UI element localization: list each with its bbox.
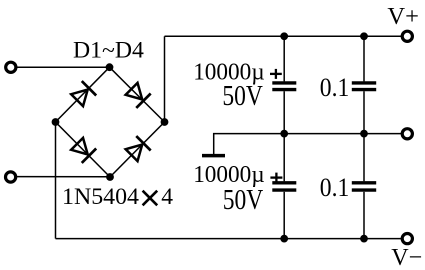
diode D (bottom-right arm) [124, 136, 150, 162]
capacitor C1 10000u 50V plates [272, 81, 296, 84]
diode D (bottom-left arm) [70, 137, 96, 163]
node right junction [161, 118, 169, 126]
svg-text:0.1: 0.1 [320, 72, 350, 102]
wire left node down to bottom rail [55, 122, 57, 239]
terminal V- [402, 234, 412, 244]
node left junction [52, 118, 60, 126]
capacitor C3 10000u 50V plates [272, 181, 296, 184]
wire upper 0.1 branch top [363, 36, 365, 81]
wire lower 0.1 branch bottom [363, 192, 365, 239]
label C1 polarity plus [270, 69, 282, 79]
capacitor C4 0.1 plates [352, 181, 376, 184]
wire upper electrolytic branch top [283, 36, 285, 81]
wire bridge arm top-right [110, 67, 165, 122]
svg-text:10000µ: 10000µ [193, 162, 265, 188]
ground [202, 154, 225, 158]
wire upper electrolytic branch bottom [283, 91, 285, 133]
diode D (top-right arm) [124, 82, 150, 108]
wire bottom rail to V- [56, 238, 403, 240]
wire bridge arm left-bottom [56, 122, 111, 177]
diode D (top-left arm) [70, 81, 96, 107]
wire lower electrolytic branch bottom [283, 192, 285, 239]
terminal V+ [402, 31, 412, 41]
wire AC1 to top node [16, 66, 109, 68]
svg-text:50V: 50V [223, 185, 264, 216]
node bottom rail C3 [280, 235, 288, 243]
svg-text:50V: 50V [222, 81, 263, 112]
node bottom junction [106, 173, 114, 181]
svg-text:0.1: 0.1 [320, 172, 350, 202]
label multiply sign [143, 191, 158, 206]
svg-text:V+: V+ [387, 3, 419, 30]
node top rail C2 [360, 32, 368, 40]
wire lower 0.1 branch top [363, 134, 365, 182]
wire top rail to V+ [165, 35, 403, 37]
label C3 polarity plus [270, 173, 282, 183]
node bottom rail C4 [360, 235, 368, 243]
wire bridge arm bottom-right [110, 122, 165, 177]
svg-text:V−: V− [391, 244, 422, 270]
terminal AC input 2 [6, 172, 16, 182]
wire right node up to top rail [164, 36, 166, 122]
wire upper 0.1 branch bottom [363, 91, 365, 133]
wire lower electrolytic branch top [283, 134, 285, 182]
capacitor C2 0.1 plates [352, 81, 376, 84]
wire bridge arm left-top [56, 67, 110, 122]
terminal mid output [402, 129, 412, 139]
wire AC2 to bottom node [16, 176, 110, 178]
terminal AC input 1 [6, 62, 16, 72]
node top junction [106, 63, 114, 71]
node top rail C1 [280, 32, 288, 40]
node mid rail C4 [360, 130, 368, 138]
svg-text:4: 4 [161, 184, 173, 210]
wire mid rail [214, 134, 403, 154]
svg-text:D1~D4: D1~D4 [73, 38, 144, 64]
node mid rail C3 [280, 130, 288, 138]
svg-text:1N5404: 1N5404 [62, 184, 139, 210]
